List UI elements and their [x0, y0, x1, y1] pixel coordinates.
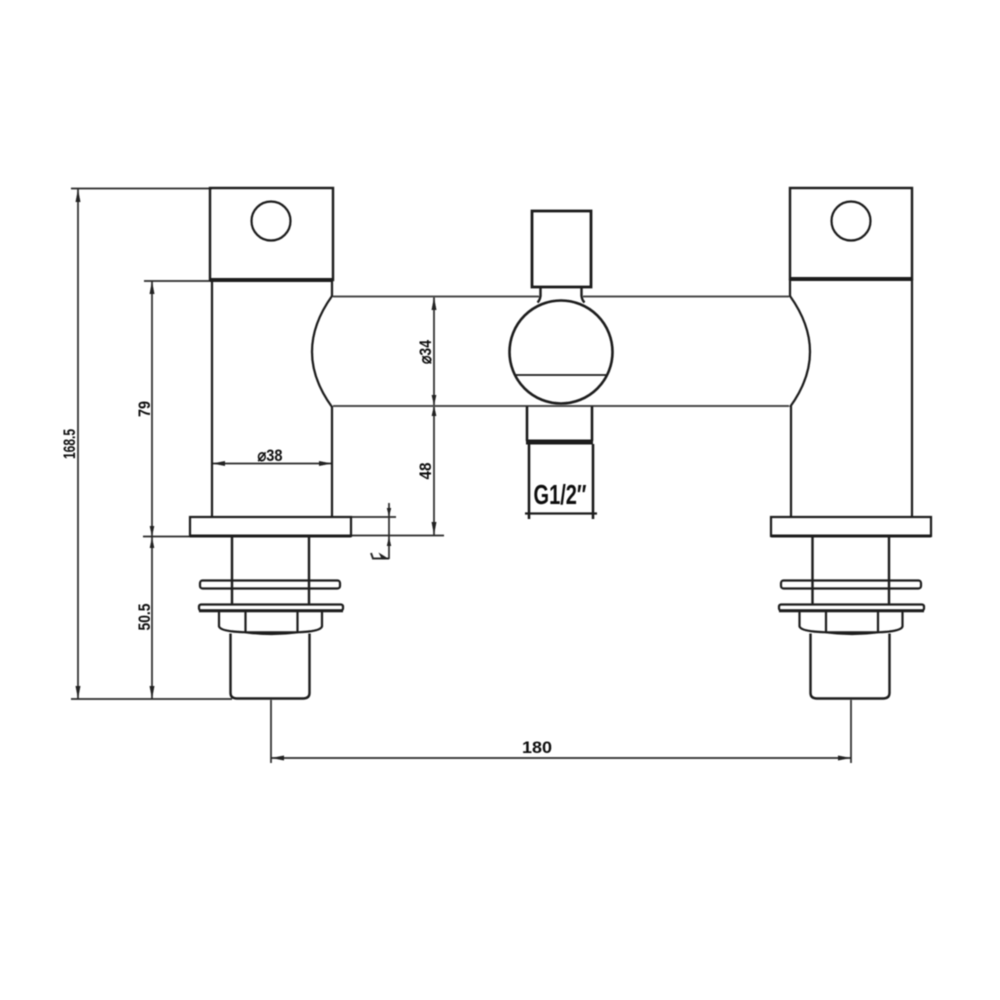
- threaded pipe: [811, 634, 890, 699]
- tube bottom line: [333, 405, 789, 407]
- svg-text:G1/2″: G1/2″: [534, 479, 587, 510]
- svg-text:79: 79: [135, 401, 154, 417]
- svg-text:⌀38: ⌀38: [258, 446, 283, 465]
- outlet collar thick line: [526, 440, 593, 445]
- shank: [231, 536, 233, 604]
- shank: [811, 536, 813, 604]
- 180 leader right: [850, 700, 852, 763]
- inner vertical dimension line 79/50.5: [151, 281, 153, 699]
- body left edge top: [789, 279, 791, 297]
- ball valve circle: [510, 301, 613, 404]
- washer 2: [199, 605, 343, 611]
- dim column x434: [433, 297, 435, 535]
- 180 dim line: [271, 757, 851, 759]
- body left edge bottom: [790, 406, 792, 517]
- base plate: [771, 517, 931, 536]
- washer 2: [779, 605, 924, 611]
- dimension texts: [60, 340, 552, 757]
- washer 1: [781, 581, 921, 589]
- outlet body: [528, 444, 531, 519]
- outer vertical dimension line 168.5: [77, 189, 79, 699]
- hex nut: [219, 611, 322, 632]
- screw circle: [252, 202, 291, 241]
- ext bottom y699: [71, 698, 232, 700]
- arrowheads: [76, 189, 852, 761]
- tube top line: [333, 296, 539, 298]
- screw circle: [832, 202, 871, 241]
- body right edge top: [331, 280, 333, 297]
- ext line top (y188): [71, 188, 212, 190]
- ext line y536: [143, 536, 191, 538]
- body right edge: [911, 279, 913, 517]
- svg-text:⌀34: ⌀34: [416, 340, 435, 364]
- ext y517 right of plate: [351, 516, 396, 518]
- ext line y281: [144, 280, 212, 282]
- svg-text:50.5: 50.5: [135, 604, 154, 631]
- body left edge: [211, 280, 213, 517]
- 180 leader left: [270, 700, 272, 763]
- 5-dim hook: [371, 553, 389, 559]
- chord line: [515, 374, 607, 376]
- body right edge bottom: [331, 406, 333, 517]
- washer 1: [200, 581, 340, 589]
- svg-text:48: 48: [416, 463, 435, 480]
- svg-text:168.5: 168.5: [60, 429, 79, 459]
- flange: [210, 188, 333, 280]
- 5-dim vertical: [388, 503, 390, 559]
- knob neck: [538, 287, 541, 303]
- base plate: [190, 517, 351, 536]
- threaded pipe: [231, 634, 310, 699]
- hex nut: [800, 611, 903, 632]
- tube end arc: [312, 296, 332, 407]
- outlet neck: [526, 406, 529, 441]
- svg-text:180: 180: [522, 738, 552, 757]
- ext y535 right of plate: [351, 535, 444, 537]
- dia38 dim line: [212, 463, 332, 465]
- flange: [790, 188, 912, 279]
- tube end arc: [790, 296, 810, 407]
- diverter knob: [532, 211, 591, 287]
